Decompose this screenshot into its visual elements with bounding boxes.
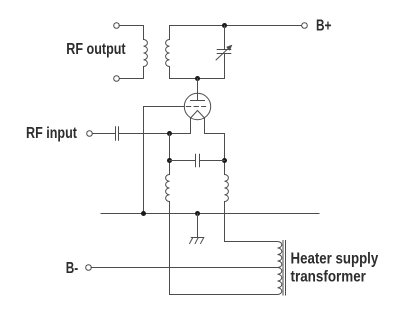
wire: left choke to heater transformer bottom <box>170 202 278 295</box>
tube V1: envelope <box>184 93 210 119</box>
wire: input capacitor to cathode <box>119 133 191 135</box>
wire: left choke vertical upper <box>169 134 171 175</box>
svg-text:Heater supply: Heater supply <box>291 251 379 268</box>
svg-text:RF input: RF input <box>26 125 77 143</box>
wire: plate lead <box>197 79 199 101</box>
wire: RF output top lead <box>119 26 143 40</box>
terminal: B+ <box>302 23 308 29</box>
node: plate junction on tank bottom rail <box>195 76 200 81</box>
wire: B- to heater transformer center tap <box>91 267 277 269</box>
wire: coupling cap right lead <box>200 160 225 162</box>
inductor L2: left filament choke <box>166 175 170 202</box>
inductor: RF output transformer secondary winding <box>144 40 148 67</box>
node: grid / bus junction <box>141 211 146 216</box>
tube V1: grid (dashed) <box>186 106 205 108</box>
terminal: B- <box>86 265 92 271</box>
node: tank top / variable cap junction <box>222 23 227 28</box>
tube V1: plate bar <box>191 100 205 102</box>
capacitor C2: input coupling capacitor <box>116 127 119 141</box>
svg-text:transformer: transformer <box>291 269 367 286</box>
wire: filament left leg <box>190 118 192 134</box>
terminal: RF output top <box>114 23 120 29</box>
terminal: RF input <box>87 131 93 137</box>
arrow of variable capacitor <box>216 47 230 60</box>
wire: tank left vertical <box>169 26 171 79</box>
node: left coupling cap junction <box>167 158 172 163</box>
inductor L1: plate tank coil <box>166 40 170 67</box>
node: right coupling cap junction <box>222 158 227 163</box>
wire: RF output bottom lead <box>119 67 143 79</box>
ground <box>190 238 204 244</box>
wire: tank top rail to B+ <box>170 25 302 27</box>
capacitor C1: variable tuning capacitor <box>217 26 231 79</box>
terminal: RF output bottom <box>114 76 120 82</box>
transformer T2: core <box>283 241 286 296</box>
wire: right filament to right choke <box>205 134 225 175</box>
transformer T2: heater supply secondary winding <box>278 242 282 295</box>
wire: right choke to heater transformer top <box>225 202 278 242</box>
wire: ground bus <box>101 213 319 215</box>
capacitor C3: filament bypass capacitor <box>196 154 200 167</box>
wire: coupling cap left lead <box>170 160 196 162</box>
wire: filament right leg <box>204 118 206 134</box>
node: input / left choke junction <box>167 131 172 136</box>
wire: RF input lead <box>92 133 115 135</box>
wire: grid lead to ground bus <box>144 107 185 214</box>
tube V1: filament <box>191 111 205 119</box>
wire: ground lead <box>197 214 199 238</box>
svg-text:B+: B+ <box>316 16 331 34</box>
svg-text:B-: B- <box>66 258 79 276</box>
node: ground / bus junction <box>195 211 200 216</box>
svg-text:RF output: RF output <box>66 41 125 59</box>
wire: tank bottom rail <box>170 78 225 80</box>
inductor L3: right filament choke <box>225 175 229 202</box>
